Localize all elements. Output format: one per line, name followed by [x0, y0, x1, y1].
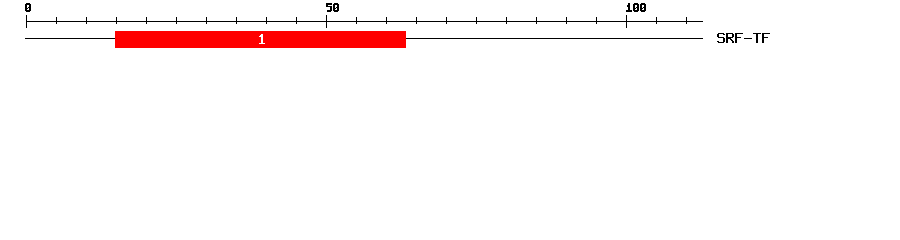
ruler label 0 — [25, 0, 32, 14]
major tick 50 — [326, 15, 327, 28]
major tick 0 — [26, 15, 27, 28]
domain box label 1 — [258, 31, 267, 46]
ruler label 100 — [626, 0, 647, 14]
minor ticks every 5 units — [56, 17, 57, 24]
sequence line — [25, 38, 703, 39]
major tick 100 — [626, 15, 627, 28]
domain box (red, motif 1) — [115, 31, 406, 48]
ruler scale line — [26, 21, 703, 22]
ruler label 50 — [326, 0, 340, 14]
domain name label SRF-TF — [717, 30, 771, 45]
